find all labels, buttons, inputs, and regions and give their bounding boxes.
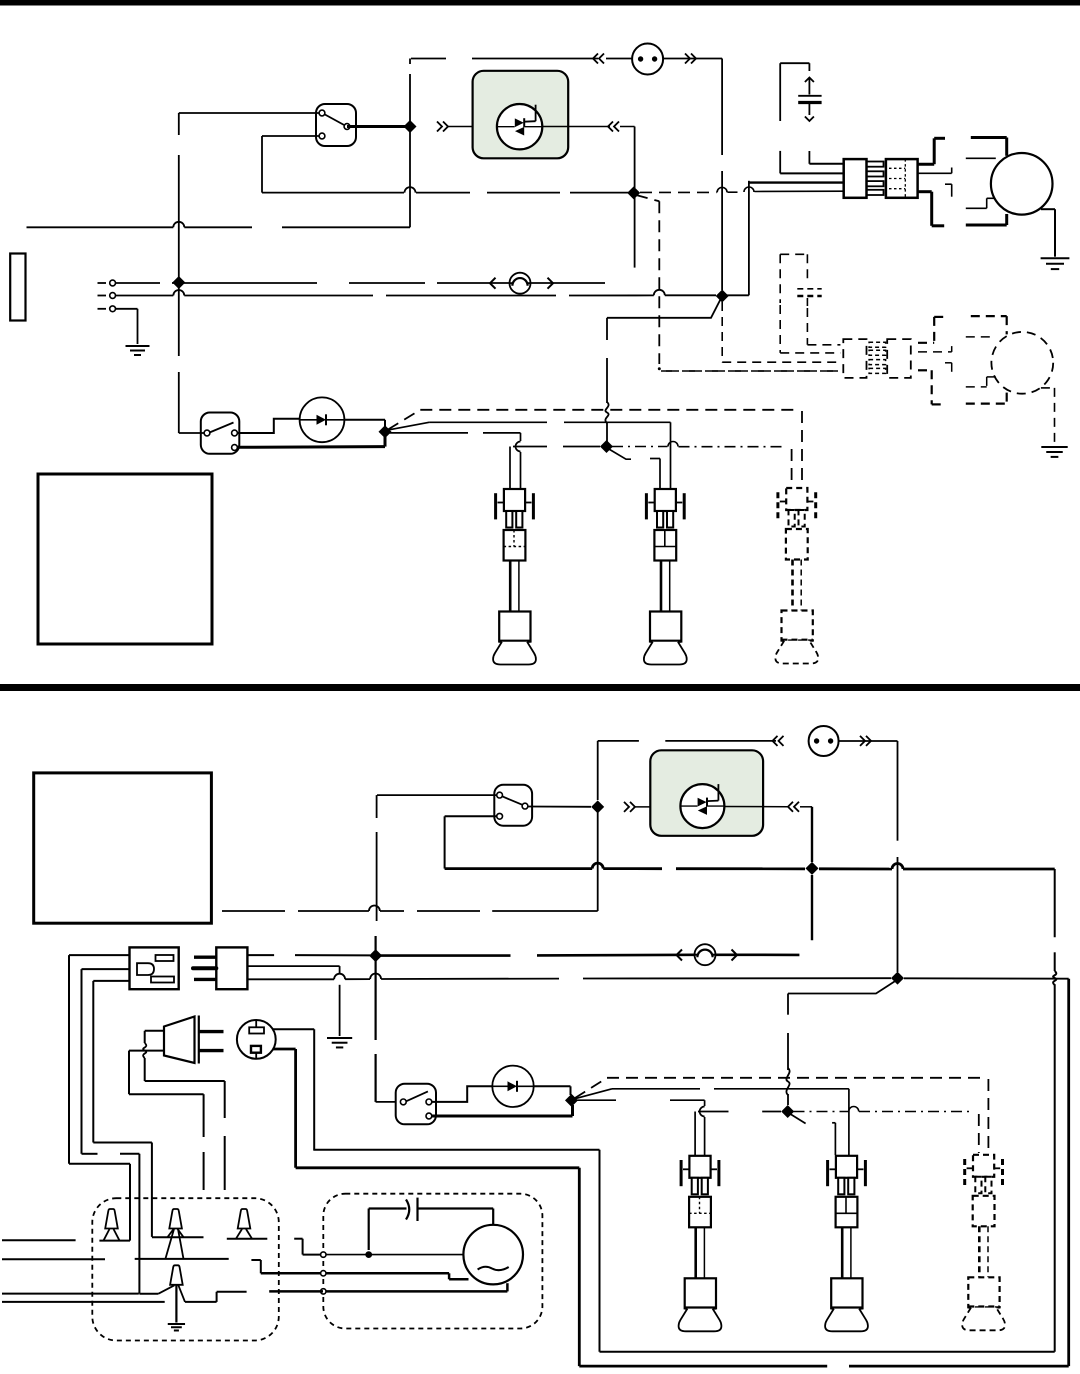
junction node A2: [404, 120, 417, 133]
plug prong 2 ground: [193, 966, 216, 970]
clip K4 wire to terminal3: [185, 1291, 323, 1302]
branch to plug 2: [389, 422, 671, 488]
PL1 wire A staircase: [143, 1031, 225, 1190]
wire SW3 key line down: [222, 812, 598, 911]
engine box: [92, 1198, 278, 1340]
wire SW3 top terminal left: [377, 794, 497, 796]
wire motor lead 3: [945, 184, 996, 208]
arrow up to C1: [805, 78, 814, 83]
dashed motor lead 3: [945, 363, 996, 387]
wire stub below node A3: [634, 193, 636, 268]
wire into module U1: [448, 126, 497, 128]
dashed motor lead 4: [918, 370, 1007, 404]
2-prong plug PL1: [164, 1016, 199, 1064]
wire A4 down-left to plug bus: [607, 296, 722, 447]
terminal ring 3: [321, 1289, 326, 1294]
dashed connector CN2b housing A: [843, 339, 866, 378]
wire SW3 bottom terminal: [445, 816, 497, 868]
AC receptacle body: [130, 947, 179, 989]
junction node D1j: [565, 1094, 578, 1107]
light switch SW2: [201, 413, 240, 454]
wire C4 to outer loop corner: [904, 977, 1069, 979]
junction node B2: [600, 440, 613, 453]
squiggle hop on inner loop: [1053, 971, 1056, 985]
wire C1 left lead to pin2: [780, 151, 844, 174]
squiggle hop on vertical x607: [605, 402, 608, 423]
wire main bus y868: [445, 863, 1055, 869]
ignition coil and spark plug P4: [679, 1156, 722, 1332]
capacitor C2: [406, 1198, 418, 1221]
junction node C3 on fuse line: [369, 949, 382, 962]
ignition coil and spark plug P2: [644, 489, 687, 665]
wire to node A3: [620, 127, 635, 194]
arrow after fuse F1: [548, 278, 554, 289]
ignition coil and spark plug P5: [825, 1156, 868, 1332]
arrows after node C1: [624, 802, 635, 812]
wire SW4 bottom thick: [432, 1105, 573, 1116]
dashed harness line 4: [658, 367, 841, 371]
frame lead 3: [2, 1293, 139, 1295]
CN4 wire bottom to outer loop: [273, 1049, 295, 1168]
PL1 prong 1: [199, 1030, 224, 1033]
stub from D2j to plug5 lead: [790, 1114, 836, 1156]
wire T2 long run to node A4: [116, 290, 717, 296]
wire node A2 up and top run: [410, 59, 632, 127]
wire W2 to clip K4: [82, 1154, 159, 1294]
wire into module U2: [635, 806, 681, 808]
plug prong 3: [194, 978, 216, 981]
arrows after node A2: [437, 122, 448, 132]
wire harness to SW2: [179, 432, 204, 434]
wire SW4 to diode D2: [432, 1086, 493, 1102]
clip K3 wire to terminal1: [294, 1239, 321, 1255]
ground G4: [168, 1324, 185, 1330]
wire A4 to connector riser: [722, 181, 749, 295]
arrows into connector CN3: [773, 736, 872, 746]
wire plug4 lead B: [695, 1112, 781, 1156]
connector CN2 housing B: [886, 159, 918, 198]
dashed branch to plug6: [575, 1078, 988, 1153]
wire motor lead 1: [918, 138, 1007, 165]
terminal T1: [98, 280, 116, 286]
clip K3 legs and wire: [227, 1229, 267, 1239]
dashed connector CN2b pins: [869, 342, 886, 373]
junction dot alternator: [365, 1251, 372, 1258]
dashed connector CN2b housing B: [887, 339, 911, 378]
ignition coil and spark plug P1: [493, 489, 536, 665]
inner loop top gap segment: [1054, 869, 1056, 971]
wire W3 to clip K2: [93, 1143, 152, 1237]
fuse F2: [695, 944, 716, 965]
junction node D2j: [781, 1105, 794, 1118]
wire stub below C2: [811, 875, 813, 940]
wire module U1 output: [542, 126, 610, 128]
receptacle slot 2: [151, 977, 174, 983]
arrows module U2 output: [788, 802, 799, 812]
clip K2 legs and wire: [152, 1229, 204, 1237]
CN4 wire top to inner loop: [272, 1029, 314, 1150]
branch to plug5: [576, 1089, 849, 1155]
wire SW2 bottom thick: [237, 436, 385, 447]
wire CN1 to right corner: [664, 59, 723, 291]
receptacle D hole: [137, 963, 154, 975]
wire motor to ground: [1041, 209, 1055, 257]
junction node B1: [379, 425, 392, 438]
rectifier module U1: [473, 71, 569, 159]
wire D1 output: [344, 420, 385, 428]
diode D2: [492, 1066, 533, 1107]
plug wire hot: [247, 954, 370, 956]
capacitor C1: [798, 78, 821, 116]
arrows module U1 output: [608, 122, 619, 132]
fuse F2 line: [376, 953, 695, 956]
plug prong 1: [194, 956, 216, 959]
arrows into connector CN1: [593, 54, 696, 64]
arrow down from C1: [805, 117, 814, 122]
ground G3: [327, 1038, 352, 1047]
terminal T3: [98, 306, 116, 312]
wire C2 left lead: [369, 1209, 407, 1251]
wire plug1 lead A with hop: [516, 433, 521, 488]
branch to plug4: [577, 1099, 705, 1101]
accessory connector CN4: [237, 1020, 276, 1059]
divider bar between diagrams: [0, 684, 1080, 691]
dashed line A3 to connector pin4: [640, 187, 844, 192]
wire bus y226: [27, 222, 411, 228]
frame lead 2: [2, 1258, 229, 1260]
page top border bar: [0, 0, 1080, 6]
wire pin3 to connector: [749, 181, 844, 183]
connector CN2 housing A: [844, 159, 867, 198]
key switch SW1: [316, 104, 356, 146]
clip K2: [169, 1209, 182, 1229]
dashed harness line 1: [807, 308, 840, 345]
wire after fuse F1: [531, 282, 606, 284]
wire SW3 right to node C1: [528, 806, 591, 808]
dash-dot engine line: [612, 442, 792, 487]
clip K3: [238, 1209, 251, 1229]
plug wire ground to G3: [247, 966, 339, 1036]
rectifier module U2: [650, 750, 763, 836]
wire motor lead 4: [918, 192, 1007, 226]
clip K4 ground lead: [175, 1285, 177, 1323]
junction node C1: [591, 800, 604, 813]
wire C1 up and over to CN3: [598, 741, 776, 800]
clip K2 long legs: [165, 1229, 183, 1259]
dashed motor ground wire: [1041, 388, 1055, 446]
wire terminal2 to alternator: [326, 1273, 468, 1279]
dashed branch from node A3: [636, 195, 659, 364]
dash-dot line to optional connector: [661, 370, 838, 372]
key switch SW3: [494, 785, 532, 826]
terminal ring 1: [321, 1252, 326, 1257]
PL1 prong 2: [199, 1049, 224, 1052]
wire motor lead 2: [918, 158, 996, 173]
wire node A2 down to bus: [409, 127, 411, 228]
dash-dot engine line lower: [794, 1107, 979, 1154]
starter motor M1: [991, 153, 1053, 215]
arrow before fuse F2: [677, 950, 683, 961]
legend box bottom: [34, 773, 212, 923]
dashed motor M1b: [991, 332, 1053, 394]
PL1 wire B staircase: [129, 1051, 204, 1190]
junction node A1: [172, 276, 185, 289]
clip K4 legs: [158, 1285, 185, 1302]
junction node A4: [716, 290, 729, 303]
squiggle hop on vertical x788: [786, 1068, 789, 1095]
wire C4 diagonal to coil bus: [788, 981, 896, 1106]
capacitor C1 bracket: [780, 63, 809, 121]
alternator G1a: [463, 1225, 523, 1285]
receptacle wire 2: [82, 969, 130, 1154]
wire module U2 output: [724, 806, 788, 808]
wire T3 to ground: [116, 309, 138, 344]
terminal T2: [98, 293, 116, 299]
wire terminal3 to alternator: [326, 1283, 507, 1291]
wire C1 right lead to pin1: [809, 151, 843, 164]
stop switch SW4: [396, 1084, 436, 1125]
dashed ground G2b: [1041, 447, 1067, 457]
wire to node C2: [800, 807, 812, 862]
connector CN2 pins: [867, 162, 884, 196]
arrow after fuse F2: [732, 950, 738, 961]
wire alternator output: [326, 1254, 463, 1256]
junction node A3: [627, 186, 640, 199]
clip K2 wire to terminal2: [251, 1260, 320, 1273]
receptacle slot 1: [156, 955, 174, 961]
wire vertical harness x178: [178, 113, 180, 433]
dashed harness line 2: [780, 305, 840, 353]
frame lead 1: [2, 1239, 76, 1241]
frame lead 4: [2, 1301, 165, 1303]
branch to plug 1: [390, 432, 521, 434]
wire plug4 lead A with hop: [700, 1100, 705, 1155]
ground G2 motor: [1041, 258, 1070, 269]
dashed ignition coil and spark plug P6: [962, 1155, 1005, 1331]
wire CN3 to right corner: [839, 741, 898, 972]
alternator box: [323, 1194, 542, 1329]
terminal ring 2: [321, 1271, 326, 1276]
connector CN3 two-pin: [809, 726, 839, 756]
AC plug body: [216, 947, 247, 989]
diode D1: [300, 397, 345, 442]
wire SW2 to diode D1: [237, 419, 300, 433]
stub from node B2 to plug2 lead: [608, 449, 660, 489]
clip K4: [170, 1265, 183, 1285]
legend box: [38, 474, 212, 644]
wire W1 to clip K1: [69, 1164, 130, 1241]
wire SW1 top terminal to left: [179, 112, 319, 114]
clip K1 legs and wire: [99, 1229, 130, 1241]
plug wire neutral long: [247, 974, 891, 980]
panel label strip: [10, 254, 25, 321]
wire SW1 bottom terminal run: [262, 136, 630, 193]
dashed harness line 3: [722, 302, 840, 362]
wire plug1 lead B: [510, 447, 600, 489]
wire after fuse F2: [716, 953, 800, 956]
wire T1 to fuse F1 run: [116, 282, 510, 284]
dashed vertical harness x375.6: [376, 795, 401, 1102]
junction node C4: [891, 972, 904, 985]
wire SW1 right terminal to node: [347, 125, 410, 128]
connector CN1 two-pin: [632, 44, 663, 75]
clip K1: [105, 1209, 118, 1229]
dashed capacitor C1b: [780, 254, 822, 306]
dashed motor lead 1: [918, 316, 1007, 343]
junction node C2: [806, 862, 819, 875]
CN4 inner pin top: [249, 1020, 264, 1033]
alternator wave symbol: [478, 1267, 509, 1270]
ground G1: [126, 346, 150, 355]
dashed motor lead 2: [918, 337, 996, 352]
receptacle wire 3: [93, 981, 129, 1143]
inner loop wire: [313, 984, 1054, 1351]
dashed ignition coil and spark plug P3: [775, 488, 818, 664]
wire D2 output: [534, 1086, 571, 1095]
dashed branch to plug 3: [388, 410, 802, 486]
receptacle wire 1: [69, 955, 130, 1164]
CN4 inner pin bottom: [251, 1046, 261, 1059]
arrow before fuse F1: [490, 278, 496, 289]
wire C2 right lead: [418, 1209, 494, 1226]
fuse F1: [510, 273, 531, 294]
outer loop wire: [296, 979, 1069, 1366]
